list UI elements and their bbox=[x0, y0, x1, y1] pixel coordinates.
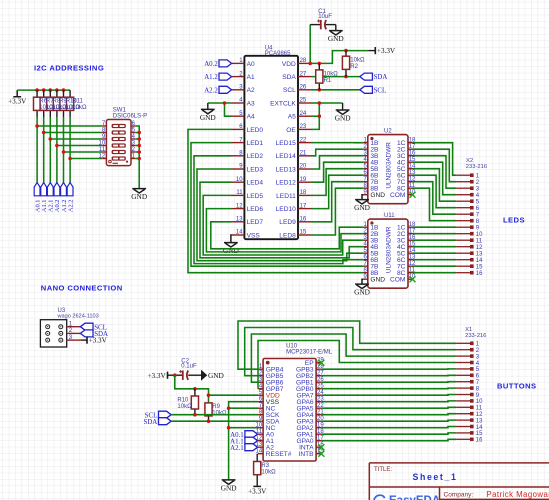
junction +3V3/R2 bbox=[344, 49, 348, 53]
connector pin X2-1 bbox=[456, 173, 480, 179]
svg-text:10: 10 bbox=[99, 141, 106, 147]
svg-text:R9: R9 bbox=[212, 404, 220, 410]
net label A2.1 bbox=[47, 183, 54, 213]
junction +3V3 bus col3 bbox=[49, 88, 53, 92]
connector pin X1-14 bbox=[456, 425, 483, 431]
wire stub bbox=[135, 132, 139, 134]
junction bbox=[35, 124, 39, 128]
svg-text:10uF: 10uF bbox=[318, 14, 332, 20]
svg-text:+3.3V: +3.3V bbox=[8, 98, 27, 106]
connector pin X2-7 bbox=[456, 212, 480, 218]
svg-text:RESET#: RESET# bbox=[266, 451, 292, 458]
svg-text:LED13: LED13 bbox=[276, 166, 296, 173]
svg-text:LED7: LED7 bbox=[247, 219, 264, 226]
junction NC1 bbox=[227, 406, 231, 410]
svg-text:LED6: LED6 bbox=[247, 206, 264, 213]
svg-text:R10: R10 bbox=[177, 397, 189, 403]
connector pin X1-12 bbox=[456, 412, 483, 418]
transistor-array U2 ULN2803ADWR bbox=[363, 129, 416, 204]
wire U10 GPA2 to X1 pin 14 bbox=[321, 427, 456, 428]
svg-text:SDA: SDA bbox=[282, 74, 296, 81]
wire U2 out 8C to X2 pin 8 bbox=[413, 188, 457, 221]
resistor R10 bbox=[63, 90, 65, 97]
net label SCL (U3) bbox=[80, 323, 106, 331]
svg-text:+3.3V: +3.3V bbox=[147, 372, 166, 380]
svg-text:A0.2: A0.2 bbox=[204, 61, 218, 68]
svg-text:R2: R2 bbox=[350, 64, 358, 70]
connector pin X2-13 bbox=[456, 251, 483, 257]
wire net LED3 bbox=[197, 169, 363, 261]
connector U3 wago 2624-1103 bbox=[40, 308, 98, 347]
svg-text:ULN2803ADWR: ULN2803ADWR bbox=[386, 226, 393, 273]
net label A0.2 bbox=[54, 183, 61, 213]
wire U10 GPA3 to X1 pin 13 bbox=[321, 420, 456, 421]
svg-text:10: 10 bbox=[476, 399, 483, 405]
resistor R6 bbox=[36, 90, 38, 97]
wire net GND ties EXTCLK A5 OE bbox=[311, 102, 319, 104]
wire U11 out 5C to X2 pin 13 bbox=[413, 252, 457, 254]
svg-text:R3: R3 bbox=[261, 463, 269, 469]
power +3.3V (R3) bbox=[248, 486, 267, 495]
svg-text:LED10: LED10 bbox=[276, 206, 296, 213]
connector pin X2-12 bbox=[456, 245, 483, 251]
no-connect X on U2 COM bbox=[410, 192, 416, 198]
wire net BTN2 GPB5 loop to X1 pin 2 bbox=[245, 328, 456, 376]
junction NC2 bbox=[227, 426, 231, 430]
svg-text:13: 13 bbox=[236, 217, 243, 223]
svg-text:18: 18 bbox=[300, 190, 307, 196]
net label A1.1 bbox=[41, 183, 48, 213]
ground GND (U11) bbox=[354, 284, 370, 296]
connector pin X1-10 bbox=[456, 399, 483, 405]
connector pin X2-8 bbox=[456, 219, 480, 225]
svg-text:11: 11 bbox=[236, 190, 243, 196]
svg-text:A2.2: A2.2 bbox=[67, 199, 74, 212]
capacitor C2 0.1uF bbox=[179, 359, 197, 380]
wire net A0.2 column bbox=[56, 117, 58, 183]
wire net BTN4 GPB7 loop to X1 pin 4 bbox=[258, 341, 456, 389]
svg-text:VDD: VDD bbox=[282, 61, 296, 68]
svg-text:A1.2: A1.2 bbox=[204, 74, 218, 81]
ground GND (SW1) bbox=[131, 189, 147, 201]
wire net LED9 bbox=[311, 182, 363, 222]
wire to SW1 pin 8 bbox=[44, 132, 102, 134]
connector pin X1-1 bbox=[456, 342, 480, 348]
svg-text:GND: GND bbox=[200, 113, 216, 122]
connector pin X2-2 bbox=[456, 180, 480, 186]
wire net +3V3 bus to resistors bbox=[17, 89, 70, 91]
title block logo EasyEDA (clipped) bbox=[374, 495, 440, 500]
svg-text:GND: GND bbox=[223, 246, 239, 255]
wire U2 out 6C to X2 pin 6 bbox=[413, 175, 457, 208]
svg-text:24: 24 bbox=[300, 111, 307, 117]
svg-text:LED15: LED15 bbox=[276, 140, 296, 147]
svg-text:U2: U2 bbox=[384, 129, 392, 135]
svg-text:14: 14 bbox=[476, 425, 483, 431]
wire U2 out 2C to X2 pin 2 bbox=[413, 149, 457, 182]
resistor R10 10k bbox=[194, 389, 196, 396]
wire net GND (U10 VSS + NC) bbox=[229, 402, 258, 480]
svg-text:COM: COM bbox=[390, 192, 405, 199]
wire net BTN3 GPB6 loop to X1 pin 3 bbox=[251, 334, 456, 382]
wire +3.3V to C2 bbox=[168, 374, 183, 376]
wire U11 out 8C to X2 pin 16 bbox=[413, 272, 457, 274]
junction bbox=[62, 150, 66, 154]
svg-text:MCP23017-E/ML: MCP23017-E/ML bbox=[286, 349, 333, 355]
svg-text:EasyEDA: EasyEDA bbox=[389, 495, 440, 500]
svg-text:GND: GND bbox=[370, 277, 385, 284]
net label SDA (U3) bbox=[80, 330, 108, 338]
svg-text:233-216: 233-216 bbox=[465, 333, 486, 339]
connector pin X1-7 bbox=[456, 380, 480, 386]
wire net LED15 bbox=[311, 142, 363, 144]
svg-text:A3: A3 bbox=[247, 100, 255, 107]
svg-text:+3.3V: +3.3V bbox=[377, 47, 396, 55]
transistor-array U11 ULN2803ADWR bbox=[363, 213, 416, 288]
svg-text:21: 21 bbox=[300, 151, 307, 157]
wire net LED5 bbox=[203, 195, 363, 255]
svg-text:22: 22 bbox=[300, 137, 307, 143]
wire net SCL bbox=[311, 89, 360, 91]
ground GND (C2) bbox=[202, 371, 224, 380]
wire net LED1 bbox=[191, 143, 363, 267]
net label SDA bbox=[360, 73, 388, 81]
connector pin X2-15 bbox=[456, 264, 483, 270]
net label A2.2 bbox=[204, 86, 231, 94]
junction bbox=[49, 137, 53, 141]
svg-text:LED0: LED0 bbox=[247, 127, 264, 134]
ground GND (U2) bbox=[354, 200, 370, 212]
ground GND (C1) bbox=[335, 25, 337, 31]
junction bbox=[137, 144, 141, 148]
connector pin X1-8 bbox=[456, 386, 480, 392]
power +3.3V (U3) bbox=[87, 337, 108, 345]
svg-text:10kΩ: 10kΩ bbox=[177, 404, 192, 410]
connector pin X1-5 bbox=[456, 367, 480, 373]
wire stub bbox=[135, 145, 139, 147]
svg-text:16: 16 bbox=[476, 438, 483, 444]
svg-text:LED2: LED2 bbox=[247, 153, 264, 160]
svg-text:A1: A1 bbox=[247, 74, 255, 81]
resistor R2 10k bbox=[345, 51, 347, 57]
wire U11 out 6C to X2 pin 14 bbox=[413, 259, 457, 261]
net label SCL bbox=[360, 86, 386, 94]
svg-text:NANO CONNECTION: NANO CONNECTION bbox=[41, 284, 123, 293]
ground GND (U4 VSS) bbox=[223, 243, 239, 255]
no-connect X on U11 COM bbox=[410, 276, 416, 282]
svg-text:R1: R1 bbox=[324, 78, 332, 84]
wire U11 out 7C to X2 pin 15 bbox=[413, 265, 457, 267]
wire net SCL to SCK bbox=[171, 414, 258, 416]
svg-text:GND: GND bbox=[208, 371, 224, 380]
net label A0.2 bbox=[204, 60, 231, 68]
connector pin X1-11 bbox=[456, 406, 483, 412]
svg-text:0.1uF: 0.1uF bbox=[181, 363, 197, 369]
connector pin X1-6 bbox=[456, 374, 480, 380]
junction SDA/R2 bbox=[344, 75, 348, 79]
wire U10 GPA1 to X1 pin 15 bbox=[321, 433, 456, 434]
wire U10 GPB0 to X1 pin 8 bbox=[321, 387, 456, 390]
junction VDD/C1 bbox=[308, 62, 312, 66]
net label A1.2 bbox=[61, 183, 68, 213]
svg-text:A4: A4 bbox=[247, 114, 255, 121]
svg-text:SDA: SDA bbox=[374, 74, 388, 81]
svg-text:I2C ADDRESSING: I2C ADDRESSING bbox=[34, 63, 104, 72]
junction bbox=[137, 131, 141, 135]
wire to SW1 pin 9 bbox=[50, 138, 102, 140]
svg-text:GND: GND bbox=[354, 288, 370, 297]
power +3.3V (U4 VDD rail) bbox=[375, 47, 396, 55]
svg-text:12: 12 bbox=[476, 412, 483, 418]
no-connect X on U10 INTB bbox=[318, 451, 324, 457]
resistor R8 bbox=[49, 90, 51, 97]
connector pin X1-13 bbox=[456, 418, 483, 424]
connector pin X2-3 bbox=[456, 186, 480, 192]
wire net A2.1 column bbox=[49, 117, 51, 183]
power +3.3V supply (resistor bank) bbox=[8, 90, 27, 106]
net label A1.2 bbox=[204, 73, 231, 81]
wire U2 GND pin bbox=[362, 195, 363, 200]
wire to SW1 pin 12 bbox=[70, 158, 102, 160]
svg-text:25: 25 bbox=[300, 98, 307, 104]
svg-text:SDA: SDA bbox=[144, 419, 158, 426]
wire net A1.1 column bbox=[43, 117, 45, 183]
capacitor C1 10uF bbox=[310, 24, 336, 26]
svg-text:TITLE:: TITLE: bbox=[374, 467, 392, 473]
connector pin X2-16 bbox=[456, 271, 483, 277]
junction A5 bbox=[318, 114, 322, 118]
title block frame bbox=[369, 463, 549, 500]
svg-text:A2: A2 bbox=[247, 87, 255, 94]
net label A1.1 bbox=[230, 437, 257, 445]
resistor R11 bbox=[69, 90, 71, 97]
junction VDD bbox=[207, 393, 211, 397]
svg-text:10kΩ: 10kΩ bbox=[261, 469, 276, 475]
svg-text:16: 16 bbox=[300, 217, 307, 223]
svg-text:GND: GND bbox=[131, 192, 147, 201]
wire U2 out 1C to X2 pin 1 bbox=[413, 143, 457, 176]
svg-text:16: 16 bbox=[476, 271, 483, 277]
ground GND (A3/A4) bbox=[200, 109, 216, 121]
ground GND (EXTCLK group) bbox=[335, 110, 351, 122]
wire U2 out 7C to X2 pin 7 bbox=[413, 182, 457, 215]
wire net LED14 bbox=[311, 149, 363, 156]
svg-text:12: 12 bbox=[236, 203, 243, 209]
connector pin X1-3 bbox=[456, 354, 480, 360]
connector pin X2-4 bbox=[456, 193, 480, 199]
junction +3V3 bus col5 bbox=[62, 88, 66, 92]
wire net GND ties A3 A4 bbox=[208, 102, 232, 104]
svg-text:GND: GND bbox=[328, 34, 344, 43]
svg-text:INTB: INTB bbox=[299, 451, 315, 458]
svg-text:11: 11 bbox=[476, 406, 483, 412]
wire net LED8 bbox=[311, 188, 363, 235]
svg-text:28: 28 bbox=[300, 58, 307, 64]
svg-text:LED11: LED11 bbox=[276, 193, 296, 200]
wire U2 out 3C to X2 pin 3 bbox=[413, 156, 457, 189]
ground GND (U10) bbox=[221, 480, 237, 492]
junction bbox=[55, 144, 59, 148]
svg-text:LED12: LED12 bbox=[276, 180, 296, 187]
wire U2 out 4C to X2 pin 4 bbox=[413, 162, 457, 195]
connector pin X2-6 bbox=[456, 206, 480, 212]
wire to SW1 pin 10 bbox=[57, 145, 102, 147]
svg-text:17: 17 bbox=[300, 203, 307, 209]
svg-text:19: 19 bbox=[300, 177, 307, 183]
resistor R9 bbox=[56, 90, 58, 97]
wire U10 GPA5 to X1 pin 11 bbox=[321, 406, 456, 409]
svg-text:12: 12 bbox=[99, 154, 106, 160]
svg-text:DSIC06LS-P: DSIC06LS-P bbox=[113, 114, 147, 120]
svg-text:15: 15 bbox=[476, 431, 483, 437]
connector pin X1-15 bbox=[456, 431, 483, 437]
wire C2 to GND bbox=[188, 374, 201, 376]
wire U3 pin3 to +3.3V bbox=[82, 339, 88, 341]
wire net LED2 bbox=[194, 156, 363, 264]
no-connect X on U10 EP bbox=[318, 360, 324, 366]
wire net LED12 bbox=[311, 162, 363, 182]
svg-text:13: 13 bbox=[476, 418, 483, 424]
wire net A1.2 column bbox=[63, 117, 65, 183]
svg-text:GND: GND bbox=[354, 203, 370, 212]
svg-text:R11: R11 bbox=[72, 99, 83, 105]
junction EXTCLK bbox=[318, 101, 322, 105]
wire U11 GND pin bbox=[362, 279, 363, 284]
resistor R7 bbox=[43, 90, 45, 97]
svg-text:GND: GND bbox=[370, 192, 385, 199]
wire U10 GPA7 to X1 pin 9 bbox=[321, 394, 456, 397]
junction R10 top bbox=[193, 387, 197, 391]
svg-text:OE: OE bbox=[286, 127, 296, 134]
net label A2.2 bbox=[67, 183, 74, 213]
wire stub bbox=[135, 158, 139, 160]
wire net VDD bbox=[311, 51, 368, 64]
svg-text:20: 20 bbox=[300, 164, 307, 170]
wire net LED13 bbox=[311, 156, 363, 169]
wire U2 out 5C to X2 pin 5 bbox=[413, 169, 457, 202]
junction bbox=[137, 150, 141, 154]
connector pin X1-2 bbox=[456, 348, 480, 354]
switch SW1 DSIC06LS-P bbox=[99, 108, 148, 166]
connector pin X1-4 bbox=[456, 361, 480, 367]
connector pin X1-9 bbox=[456, 393, 480, 399]
svg-text:11: 11 bbox=[99, 147, 106, 153]
junction VDD/R1 bbox=[318, 62, 322, 66]
svg-text:LED9: LED9 bbox=[279, 219, 296, 226]
svg-text:23: 23 bbox=[300, 124, 307, 130]
svg-text:COM: COM bbox=[390, 277, 405, 284]
wire net SDA bbox=[311, 76, 360, 78]
junction bbox=[137, 157, 141, 161]
resistor R1 10k bbox=[318, 63, 320, 70]
wire U11 out 3C to X2 pin 11 bbox=[413, 239, 457, 241]
wire U10 GPB3 to X1 pin 5 bbox=[321, 368, 456, 370]
wire net VSS U4 bbox=[230, 235, 233, 243]
junction +3V3 bus col2 bbox=[42, 88, 46, 92]
wire net LED10 bbox=[311, 175, 363, 208]
wire SW1 right common bus bbox=[135, 126, 139, 188]
svg-text:10: 10 bbox=[476, 232, 483, 238]
svg-text:A5: A5 bbox=[288, 114, 296, 121]
svg-text:11: 11 bbox=[476, 239, 483, 245]
svg-text:LEDS: LEDS bbox=[503, 215, 525, 224]
wire U10 GPA0 to X1 pin 16 bbox=[321, 439, 456, 440]
svg-text:LED8: LED8 bbox=[279, 232, 296, 239]
svg-text:10kΩ: 10kΩ bbox=[212, 411, 227, 417]
wire U10 GPB1 to X1 pin 7 bbox=[321, 381, 456, 384]
connector pin X1-16 bbox=[456, 438, 483, 444]
svg-text:Patrick Magowan: Patrick Magowan bbox=[487, 490, 549, 499]
svg-text:27: 27 bbox=[300, 71, 307, 77]
svg-text:LED14: LED14 bbox=[276, 153, 296, 160]
svg-text:X2: X2 bbox=[466, 158, 473, 164]
wire net +3V3 rail down bbox=[175, 375, 209, 403]
connector X2 233-216 bbox=[466, 158, 487, 170]
resistor R3 10k bbox=[256, 454, 258, 462]
junction bbox=[137, 137, 141, 141]
wire net A0.1 column bbox=[36, 117, 38, 183]
svg-text:233-216: 233-216 bbox=[466, 164, 487, 170]
svg-text:EXTCLK: EXTCLK bbox=[270, 100, 296, 107]
junction +3V3 bus col4 bbox=[55, 88, 59, 92]
svg-text:A0: A0 bbox=[247, 61, 255, 68]
wire U10 GPA4 to X1 pin 12 bbox=[321, 414, 456, 415]
svg-text:10kΩ: 10kΩ bbox=[350, 58, 365, 64]
svg-text:Sheet_1: Sheet_1 bbox=[413, 472, 458, 482]
wire U10 GPA6 to X1 pin 10 bbox=[321, 400, 456, 403]
junction +3V3 bus col1 bbox=[35, 88, 39, 92]
connector pin X2-14 bbox=[456, 258, 483, 264]
junction SDA/R9 bbox=[207, 419, 211, 423]
resistor R9 10k bbox=[208, 416, 210, 421]
net label SDA (bottom) bbox=[144, 418, 172, 426]
wire U11 out 4C to X2 pin 12 bbox=[413, 246, 457, 248]
svg-text:wago 2624-1103: wago 2624-1103 bbox=[57, 314, 99, 320]
no-connect X on U10 INTA bbox=[318, 444, 324, 450]
svg-text:A2.1: A2.1 bbox=[230, 445, 244, 452]
svg-text:10kΩ: 10kΩ bbox=[324, 71, 339, 77]
svg-text:LED3: LED3 bbox=[247, 166, 264, 173]
wire U11 out 2C to X2 pin 10 bbox=[413, 233, 457, 235]
op-amp U4 PCA9865 I/O expander bbox=[232, 46, 312, 240]
wire to SW1 pin 11 bbox=[64, 151, 103, 153]
svg-text:Company:: Company: bbox=[444, 491, 474, 498]
svg-text:10kΩ: 10kΩ bbox=[72, 105, 87, 111]
svg-text:13: 13 bbox=[476, 252, 483, 258]
wire net SDA bbox=[171, 420, 258, 422]
junction SCL/R1 bbox=[318, 88, 322, 92]
svg-text:A2.2: A2.2 bbox=[204, 87, 218, 94]
junction SCL/R10 bbox=[193, 413, 197, 417]
svg-text:LED1: LED1 bbox=[247, 140, 264, 147]
svg-text:LED4: LED4 bbox=[247, 180, 264, 187]
wire stub bbox=[135, 138, 139, 140]
junction bbox=[42, 131, 46, 135]
connector pin X2-9 bbox=[456, 225, 480, 231]
svg-text:BUTTONS: BUTTONS bbox=[497, 381, 537, 390]
svg-text:LED5: LED5 bbox=[247, 193, 264, 200]
svg-text:ULN2803ADWR: ULN2803ADWR bbox=[386, 142, 393, 189]
wire net LED7 bbox=[211, 222, 363, 249]
wire net LED4 bbox=[200, 182, 363, 258]
wire to SW1 pin 7 bbox=[37, 125, 102, 127]
connector pin X2-5 bbox=[456, 199, 480, 205]
junction 3V3 branch bbox=[173, 373, 177, 377]
svg-text:15: 15 bbox=[476, 265, 483, 271]
svg-text:14: 14 bbox=[476, 258, 483, 264]
power +3.3V (C2 rail) bbox=[147, 372, 167, 380]
svg-text:VSS: VSS bbox=[247, 232, 261, 239]
